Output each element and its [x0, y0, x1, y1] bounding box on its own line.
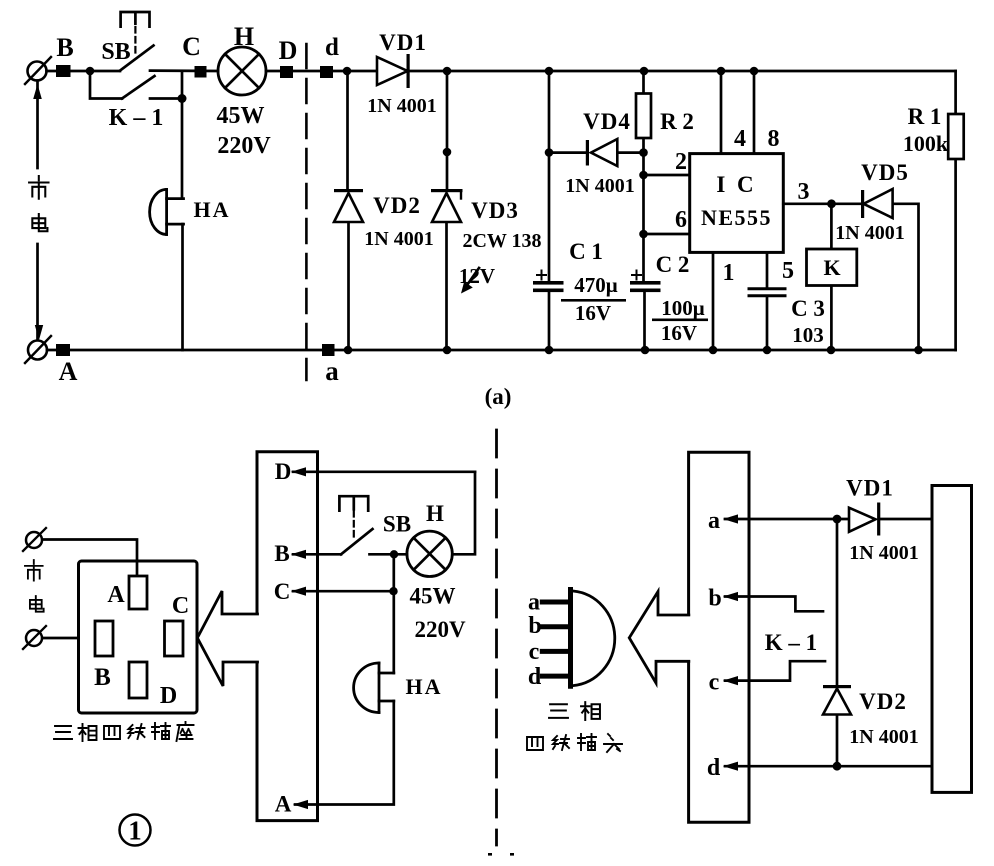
wire VD5 row [832, 204, 919, 350]
caption 三相四线插座 [54, 726, 72, 739]
svg-text:1N 4001: 1N 4001 [849, 542, 918, 564]
socket pin D [129, 662, 147, 698]
svg-text:D: D [279, 36, 298, 65]
svg-text:1: 1 [128, 816, 142, 846]
diode VD4 [591, 139, 617, 166]
svg-text:H: H [234, 22, 254, 51]
svg-text:C 3: C 3 [791, 296, 825, 321]
svg-text:16V: 16V [575, 301, 611, 325]
wire R1 branch [954, 71, 957, 350]
capacitor C3 [749, 287, 785, 290]
socket body 三相四线插座 [79, 561, 198, 713]
wire pin 6 [644, 233, 690, 236]
svg-text:470μ: 470μ [574, 273, 618, 297]
svg-text:C 1: C 1 [569, 239, 603, 264]
junction dots top rail [86, 67, 95, 76]
wire VD4 row [549, 151, 643, 154]
svg-text:12V: 12V [459, 264, 495, 288]
node mains terminal upper (socket) [26, 532, 42, 548]
wire VD1 to plug bar [880, 518, 932, 521]
svg-text:8: 8 [768, 126, 780, 152]
svg-text:d: d [528, 664, 542, 690]
svg-text:d: d [325, 34, 339, 61]
svg-text:b: b [708, 586, 721, 612]
socket pin B [95, 621, 113, 656]
capacitor C1 [533, 281, 564, 285]
label 市电 mains (top) [29, 176, 48, 199]
terminal a line of strip [725, 518, 849, 521]
wire mains left vertical upper [36, 81, 39, 169]
junction dot C1 branch at VD4 level [545, 148, 554, 157]
svg-text:C: C [182, 32, 201, 61]
svg-text:C: C [172, 593, 189, 619]
block arrow lower half (socket to strip) [198, 638, 258, 686]
svg-text:B: B [94, 664, 111, 691]
svg-text:A: A [275, 792, 292, 817]
dashed divider line bottom [495, 430, 498, 845]
svg-text:VD3: VD3 [471, 198, 519, 223]
wire pin 1 [712, 252, 715, 350]
svg-text:45W: 45W [217, 103, 265, 129]
wire mains to pin B of socket [43, 637, 96, 640]
svg-text:VD2: VD2 [373, 193, 421, 218]
svg-text:4: 4 [734, 126, 746, 152]
svg-text:R 1: R 1 [908, 104, 942, 129]
svg-text:I C: I C [716, 172, 756, 197]
svg-text:C 2: C 2 [656, 252, 690, 277]
terminal d line of strip [725, 765, 932, 768]
relay contact K-1 right wire [150, 97, 182, 100]
terminal A arrowhead of strip [293, 800, 308, 809]
svg-text:B: B [56, 33, 73, 62]
terminal B line of strip [293, 553, 341, 556]
svg-text:HA: HA [194, 197, 231, 222]
svg-text:VD4: VD4 [583, 109, 631, 134]
svg-text:220V: 220V [414, 617, 466, 642]
junction dots bottom rail [344, 346, 353, 355]
circled figure number 1 [120, 815, 151, 846]
buzzer HA [165, 189, 168, 234]
plug pin a [542, 600, 568, 605]
wire pin 3 [783, 202, 831, 205]
block arrow upper half (plug to strip) [630, 592, 689, 638]
svg-text:a: a [325, 356, 339, 386]
resistor R1 [948, 114, 964, 159]
buzzer HA (bottom) [378, 663, 381, 713]
terminal D line of strip [293, 470, 475, 473]
socket pin C [165, 621, 184, 656]
arrow up on mains line [33, 84, 42, 99]
wire mains to pin A of socket [43, 540, 138, 577]
block arrow upper half (socket to strip) [198, 591, 258, 638]
wire pin 2 [644, 174, 690, 177]
svg-text:VD1: VD1 [379, 30, 427, 55]
svg-text:1N 4001: 1N 4001 [835, 222, 904, 244]
connector strip right (with notch for arrow) [689, 452, 749, 822]
wire top rail B to SB pivot [47, 70, 121, 73]
node square B [56, 65, 71, 77]
socket pin A [129, 576, 147, 609]
resistor R2 [636, 94, 651, 139]
wire mains left vertical lower [36, 244, 39, 340]
wire stub to pin A inside socket [136, 561, 139, 576]
wire pin 5 to C3 [766, 252, 769, 350]
svg-text:16V: 16V [661, 321, 697, 345]
svg-text:HA: HA [406, 674, 443, 699]
svg-text:1: 1 [723, 260, 735, 286]
node square a [322, 344, 335, 356]
junction blob on VD3 branch [443, 148, 452, 157]
svg-text:b: b [528, 613, 541, 639]
diode VD1 (plug) [849, 508, 876, 532]
node square D [280, 66, 293, 78]
wire HA down to terminal A line [295, 701, 394, 805]
wire HA bottom to bottom rail [181, 224, 184, 350]
plug pin d [542, 674, 568, 679]
arrow down on mains line [35, 325, 43, 340]
svg-text:45W: 45W [410, 584, 456, 609]
pushbutton actuator of SB [121, 12, 150, 27]
plug symbol 三相四线插头 body [568, 590, 573, 687]
op-amp IC NE555 box [690, 154, 784, 253]
junction dots R2 column [639, 148, 648, 157]
lamp H (bottom) [407, 531, 452, 576]
wire C1 branch vertical [548, 71, 551, 350]
diode VD2 (plug) [823, 689, 851, 715]
terminal b line of strip with K-1 contact [725, 597, 823, 612]
svg-text:K: K [823, 255, 840, 280]
wire pin 8 [753, 71, 756, 154]
svg-text:5: 5 [782, 258, 794, 284]
node mains terminal lower (socket) [26, 630, 42, 646]
wire SB fixed side to lamp [150, 69, 218, 72]
svg-text:NE555: NE555 [701, 205, 772, 230]
wire SB fixed side to lamp left [370, 553, 408, 556]
relay K box [807, 249, 857, 286]
block arrow lower half (plug to strip) [630, 638, 689, 683]
connector strip middle (with notch for arrow) [257, 452, 318, 821]
svg-text:VD5: VD5 [861, 160, 909, 185]
diode VD2 [334, 193, 363, 222]
svg-text:1N 4001: 1N 4001 [849, 726, 918, 748]
svg-text:c: c [709, 670, 720, 696]
svg-text:1N 4001: 1N 4001 [367, 95, 436, 117]
wire D to lamp right [452, 472, 475, 555]
plug pin c [542, 649, 568, 654]
svg-text:a: a [528, 590, 540, 616]
wire VD3 branch vertical [445, 71, 448, 350]
wire vertical from top rail through K-1 node down to HA [181, 71, 184, 199]
svg-text:D: D [275, 459, 292, 484]
svg-text:c: c [529, 639, 540, 665]
svg-text:K – 1: K – 1 [765, 630, 817, 655]
pushbutton actuator of SB (bottom) [339, 496, 368, 510]
svg-text:103: 103 [792, 323, 824, 347]
plug pin b [542, 624, 568, 629]
node square d [320, 66, 333, 78]
wire VD1 cathode to right end of top rail [409, 70, 956, 73]
label 市电 mains (bottom) [25, 560, 43, 581]
svg-text:SB: SB [101, 39, 130, 65]
wire lamp to VD1 anode [266, 70, 377, 73]
node square A [56, 344, 70, 356]
svg-text:3: 3 [798, 179, 810, 205]
zener VD3 [432, 193, 461, 222]
svg-text:2: 2 [675, 149, 687, 175]
relay contact K-1 blade [122, 76, 155, 99]
capacitor C2 [630, 281, 661, 285]
wire VD2 branch vertical [348, 71, 349, 350]
arrow on 12V zener label [465, 268, 479, 288]
node B mains terminal [28, 62, 47, 81]
svg-text:d: d [707, 755, 721, 781]
terminal c line of strip with K-1 contact [725, 661, 825, 680]
svg-text:C: C [274, 579, 291, 604]
svg-text:100k: 100k [903, 131, 949, 156]
wire junction down to HA (bottom) [392, 554, 395, 673]
diode VD5 [864, 189, 893, 218]
diode VD1 [377, 57, 408, 85]
svg-text:2CW 138: 2CW 138 [462, 230, 541, 252]
svg-text:1N 4001: 1N 4001 [565, 175, 634, 197]
switch SB blade (bottom) [341, 529, 373, 554]
wire K branch [830, 204, 833, 350]
switch SB blade [120, 46, 154, 71]
lamp H [218, 47, 266, 95]
mating bar right [932, 486, 972, 793]
node square C [195, 66, 207, 78]
svg-text:VD2: VD2 [859, 689, 907, 714]
svg-text:D: D [160, 683, 177, 709]
svg-text:6: 6 [675, 207, 687, 233]
svg-text:H: H [426, 501, 444, 526]
svg-text:VD1: VD1 [846, 476, 894, 501]
svg-text:220V: 220V [217, 133, 271, 159]
svg-text:B: B [274, 541, 289, 566]
relay contact K-1 left wire [90, 71, 122, 99]
caption 三相 四线插头 [549, 704, 568, 718]
svg-text:A: A [59, 357, 78, 386]
node A mains terminal [28, 341, 47, 360]
dashed divider line d-a [305, 44, 308, 380]
svg-text:100μ: 100μ [661, 296, 705, 320]
wire pin 4 [720, 71, 723, 154]
wire vertical a-d with VD2 [836, 519, 839, 766]
svg-text:A: A [107, 582, 125, 608]
svg-text:(a): (a) [485, 384, 512, 409]
svg-text:a: a [708, 508, 720, 534]
terminal C line of strip [293, 590, 394, 593]
svg-text:1N 4001: 1N 4001 [364, 228, 433, 250]
svg-text:K – 1: K – 1 [109, 105, 164, 131]
svg-text:R 2: R 2 [660, 109, 694, 134]
wire R2 branch vertical [644, 71, 645, 350]
svg-text:SB: SB [383, 512, 411, 537]
bottom rail [47, 349, 956, 352]
